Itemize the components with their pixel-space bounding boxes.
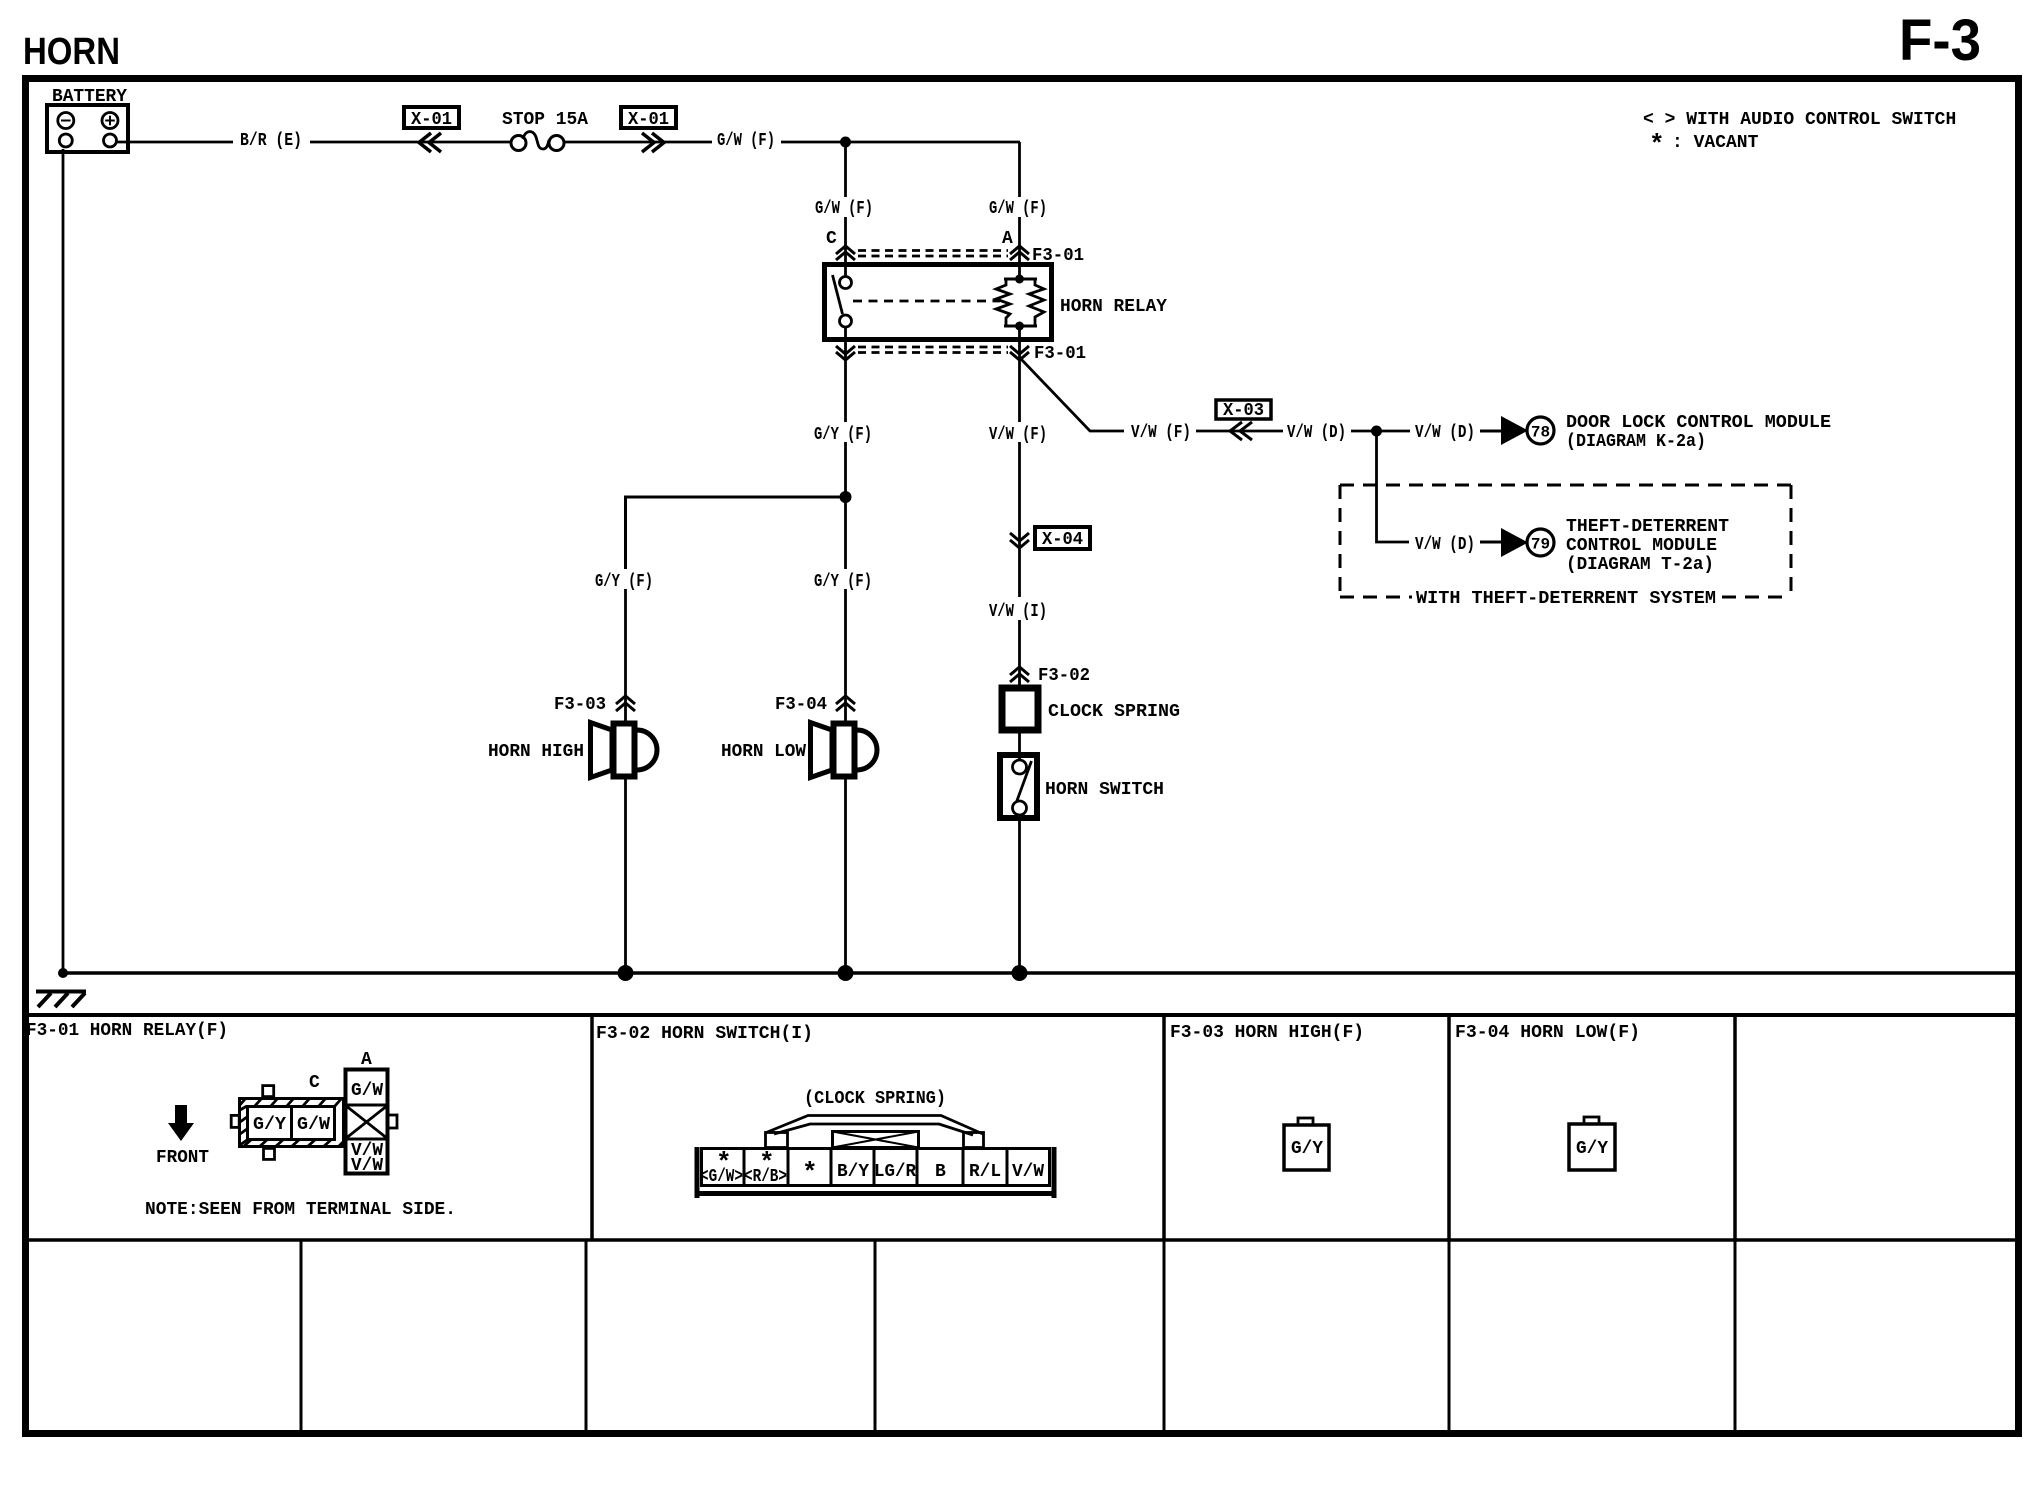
connector F3-04: [775, 695, 855, 715]
horn high: [591, 723, 658, 778]
fuse STOP 15A: [502, 110, 588, 151]
svg-text:F3-04: F3-04: [775, 695, 827, 715]
wire relay pin down right: [1018, 342, 1021, 597]
svg-text:G/Y: G/Y: [1291, 1139, 1323, 1159]
svg-text:NOTE:SEEN FROM TERMINAL SIDE.: NOTE:SEEN FROM TERMINAL SIDE.: [145, 1200, 456, 1220]
wire to X-03: [1196, 430, 1283, 433]
svg-text:B/Y: B/Y: [837, 1162, 869, 1182]
svg-text:X-04: X-04: [1042, 530, 1083, 550]
svg-text:G/Y (F): G/Y (F): [814, 425, 872, 445]
wire horn switch to ground: [1018, 818, 1021, 972]
svg-text:HORN SWITCH: HORN SWITCH: [1045, 780, 1164, 800]
svg-text:B/R (E): B/R (E): [240, 131, 302, 151]
svg-text:V/W: V/W: [1012, 1162, 1044, 1182]
svg-text:<R/B>: <R/B>: [744, 1167, 787, 1187]
svg-text:B: B: [935, 1162, 946, 1182]
svg-text:F-3: F-3: [1899, 8, 1981, 73]
connector F3-01 bottom: [836, 344, 1086, 364]
horn relay: [825, 265, 1052, 343]
svg-text:WITH THEFT-DETERRENT SYSTEM: WITH THEFT-DETERRENT SYSTEM: [1416, 589, 1716, 609]
table row divider: [29, 1238, 2015, 1242]
dashed box with theft-deterrent system: [1340, 485, 1791, 609]
svg-text:V/W (D): V/W (D): [1415, 423, 1475, 443]
svg-text:F3-01 HORN RELAY(F): F3-01 HORN RELAY(F): [26, 1021, 228, 1041]
page number F-3: [1899, 8, 1981, 73]
svg-text:LG/R: LG/R: [874, 1162, 916, 1182]
label HORN RELAY: [1060, 297, 1167, 317]
svg-text:G/W (F): G/W (F): [989, 199, 1047, 219]
svg-text:G/W: G/W: [351, 1081, 383, 1101]
wire clock spring to horn switch: [1018, 732, 1021, 752]
svg-text:79: 79: [1531, 536, 1550, 554]
svg-text:: VACANT: : VACANT: [1672, 133, 1759, 153]
label HORN HIGH: [488, 742, 584, 762]
svg-text:CLOCK SPRING: CLOCK SPRING: [1048, 702, 1180, 722]
svg-text:R/L: R/L: [969, 1162, 1001, 1182]
svg-text:G/W (F): G/W (F): [717, 131, 775, 151]
pin label C: [826, 229, 837, 249]
header F3-03 HORN HIGH: [1170, 1023, 1364, 1043]
svg-text:DOOR LOCK CONTROL MODULE: DOOR LOCK CONTROL MODULE: [1566, 413, 1831, 433]
wire label V/W (D) 2: [1415, 423, 1475, 443]
F3-04 connector G/Y: [1569, 1117, 1615, 1170]
svg-text:G/Y: G/Y: [253, 1115, 286, 1135]
svg-text:(CLOCK SPRING): (CLOCK SPRING): [804, 1089, 946, 1109]
svg-text:V/W (D): V/W (D): [1415, 535, 1475, 555]
arrow 79 theft deterrent: [1501, 528, 1554, 557]
connector F3-02: [1010, 666, 1090, 686]
wire down right relay pin A: [1018, 142, 1021, 262]
note seen from terminal side: [145, 1200, 456, 1220]
svg-text:V/W (F): V/W (F): [1131, 423, 1191, 443]
clock spring: [1002, 688, 1038, 730]
wire label G/W (F) top: [717, 131, 775, 151]
wire left branch down: [624, 589, 627, 722]
battery ground wire: [62, 149, 65, 973]
header F3-02 HORN SWITCH: [596, 1024, 813, 1044]
wire label V/W (D) theft: [1415, 535, 1475, 555]
svg-text:G/W: G/W: [297, 1115, 330, 1135]
svg-text:C: C: [826, 229, 837, 249]
svg-text:C: C: [309, 1073, 320, 1093]
wire horizontal to left branch: [626, 497, 846, 569]
pin label A: [1002, 229, 1013, 249]
svg-text:X-01: X-01: [411, 110, 452, 130]
svg-text:F3-03 HORN HIGH(F): F3-03 HORN HIGH(F): [1170, 1023, 1364, 1043]
svg-text:G/Y (F): G/Y (F): [595, 572, 653, 592]
wire label G/W (F) pin A: [989, 199, 1047, 219]
svg-text:X-01: X-01: [628, 110, 669, 130]
label theft-deterrent control module: [1566, 517, 1729, 575]
F3-02 connector drawing: [695, 1116, 1056, 1199]
svg-text:G/W (F): G/W (F): [815, 199, 873, 219]
wire label G/Y (F): [814, 425, 872, 445]
svg-text:G/Y: G/Y: [1576, 1139, 1608, 1159]
svg-text:V/W (I): V/W (I): [989, 602, 1047, 622]
junction node G/Y: [840, 491, 852, 503]
svg-text:F3-01: F3-01: [1034, 344, 1086, 364]
legend audio control switch: [1643, 110, 1956, 130]
wire fuse to X-01 right: [564, 141, 712, 144]
svg-text:HORN RELAY: HORN RELAY: [1060, 297, 1167, 317]
svg-text:78: 78: [1531, 424, 1550, 442]
wire label V/W (I): [989, 602, 1047, 622]
connector X-01 left: [404, 107, 459, 152]
svg-text:*: *: [802, 1158, 818, 1188]
svg-text:F3-04 HORN LOW(F): F3-04 HORN LOW(F): [1455, 1023, 1640, 1043]
header F3-04 HORN LOW: [1455, 1023, 1640, 1043]
wire battery to X-01: [117, 141, 234, 144]
junction node: [840, 137, 851, 148]
svg-text:F3-02 HORN SWITCH(I): F3-02 HORN SWITCH(I): [596, 1024, 813, 1044]
svg-text:F3-02: F3-02: [1038, 666, 1090, 686]
svg-text:THEFT-DETERRENT: THEFT-DETERRENT: [1566, 517, 1729, 537]
wire to junction: [781, 141, 1020, 144]
svg-text:HORN LOW: HORN LOW: [721, 742, 806, 762]
junction node horn switch ground: [1012, 965, 1028, 981]
wire label G/Y (F) mid branch: [814, 572, 872, 592]
wire label V/W (F) branch: [1131, 423, 1191, 443]
wire label V/W (F) vertical: [989, 425, 1047, 445]
header F3-01 HORN RELAY: [26, 1021, 228, 1041]
connector X-01 right: [621, 107, 676, 152]
svg-text:FRONT: FRONT: [156, 1148, 209, 1168]
wire down left relay pin C: [844, 142, 847, 262]
connector F3-01 top: [836, 246, 1084, 266]
horn low: [811, 723, 878, 778]
svg-text:F3-03: F3-03: [554, 695, 606, 715]
svg-text:*: *: [1649, 130, 1665, 160]
connector X-03: [1216, 400, 1271, 440]
wire horn high to ground: [624, 779, 627, 972]
wire V/W(I) down: [1018, 620, 1021, 686]
svg-text:A: A: [361, 1050, 372, 1070]
svg-text:< > WITH AUDIO CONTROL SWITCH: < > WITH AUDIO CONTROL SWITCH: [1643, 110, 1956, 130]
label HORN LOW: [721, 742, 806, 762]
junction node V/W: [1371, 426, 1382, 437]
junction node battery ground: [58, 968, 68, 978]
legend vacant: [1649, 130, 1759, 160]
wire to arrow 78: [1480, 430, 1503, 433]
wire junction down to theft branch: [1377, 431, 1410, 542]
wire to junction: [1351, 430, 1410, 433]
F3-01 connector drawing: [231, 1050, 397, 1176]
table top line: [29, 1013, 2015, 1017]
ground bus: [59, 971, 2015, 975]
wire mid branch down: [844, 494, 847, 722]
wire relay pin down left: [844, 342, 847, 494]
title HORN: [23, 31, 120, 73]
front arrow: [156, 1105, 209, 1168]
wire label B/R (E): [240, 131, 302, 151]
svg-text:(DIAGRAM K-2a): (DIAGRAM K-2a): [1566, 432, 1706, 452]
label CLOCK SPRING: [1048, 702, 1180, 722]
connector X-04: [1010, 527, 1090, 550]
wire label G/W (F) pin C: [815, 199, 873, 219]
svg-text:(DIAGRAM T-2a): (DIAGRAM T-2a): [1566, 555, 1714, 575]
label door lock control module: [1566, 413, 1831, 452]
wire label to connector: [310, 141, 510, 144]
svg-text:<G/W>: <G/W>: [700, 1167, 743, 1187]
wire label V/W (D): [1287, 423, 1346, 443]
junction node horn high ground: [618, 965, 634, 981]
svg-text:X-03: X-03: [1223, 401, 1264, 421]
svg-text:STOP 15A: STOP 15A: [502, 110, 588, 130]
svg-text:G/Y (F): G/Y (F): [814, 572, 872, 592]
svg-text:V/W: V/W: [351, 1156, 383, 1176]
F3-03 connector G/Y: [1284, 1118, 1329, 1170]
junction node horn low ground: [838, 965, 854, 981]
svg-text:HORN: HORN: [23, 31, 120, 73]
label HORN SWITCH: [1045, 780, 1164, 800]
svg-text:CONTROL MODULE: CONTROL MODULE: [1566, 536, 1717, 556]
arrow 78 door lock: [1501, 416, 1554, 445]
battery: [47, 87, 128, 152]
wire horn low to ground: [844, 779, 847, 972]
horn switch: [1000, 752, 1037, 821]
table row1 verticals: [592, 1015, 1735, 1240]
svg-text:V/W (F): V/W (F): [989, 425, 1047, 445]
ground: [36, 992, 86, 1008]
table row2 verticals: [301, 1240, 1735, 1430]
svg-text:A: A: [1002, 229, 1013, 249]
wire label G/Y (F) left branch: [595, 572, 653, 592]
svg-text:V/W (D): V/W (D): [1287, 423, 1346, 443]
diagonal branch wire: [1021, 359, 1124, 431]
connector F3-03: [554, 695, 635, 715]
wire to arrow 79: [1480, 541, 1503, 544]
label (CLOCK SPRING): [804, 1089, 946, 1109]
svg-text:HORN HIGH: HORN HIGH: [488, 742, 584, 762]
